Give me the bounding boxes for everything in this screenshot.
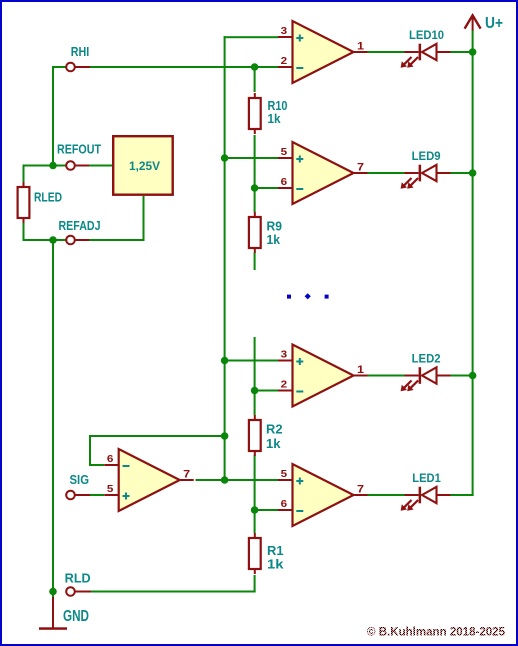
- wire junction: [251, 184, 259, 192]
- svg-text:R1: R1: [267, 544, 284, 558]
- wire junction: [251, 387, 259, 395]
- node REFOUT (terminal): [57, 143, 101, 170]
- wire junction: [49, 236, 57, 244]
- svg-text:© B.Kuhlmann 2018-2025: © B.Kuhlmann 2018-2025: [367, 625, 505, 639]
- op-amp comparator U1 (drives LED10): [278, 21, 368, 83]
- wire divider chain above R2: [254, 337, 256, 415]
- wire junction: [469, 169, 477, 177]
- svg-text:R2: R2: [266, 423, 283, 437]
- wire feedback to U5 pin6: [89, 464, 104, 466]
- wire junction: [251, 506, 259, 514]
- wire divider tap to U2 pin6: [255, 187, 278, 189]
- wire junction: [49, 588, 57, 596]
- svg-text:2: 2: [281, 379, 288, 391]
- svg-text:LED10: LED10: [409, 28, 444, 42]
- wire divider chain R2-R1: [254, 455, 256, 533]
- svg-text:LED2: LED2: [412, 351, 441, 365]
- svg-text:SIG: SIG: [70, 473, 90, 487]
- wire RLD line to divider bottom: [75, 591, 256, 593]
- wire divider chain below R9: [254, 253, 256, 271]
- resistor R10: [249, 93, 288, 134]
- svg-text:1,25V: 1,25V: [129, 159, 160, 173]
- wire U3 output to LED: [368, 375, 405, 377]
- svg-text:5: 5: [281, 468, 288, 480]
- wire LED anode to U+ rail: [451, 51, 474, 53]
- wire left rail RHI to REFOUT: [52, 66, 54, 167]
- svg-text:1k: 1k: [267, 233, 281, 247]
- wire LED anode to U+ rail: [451, 494, 474, 496]
- wire junction: [469, 48, 477, 56]
- wire divider tap to U3 pin2: [255, 390, 278, 392]
- svg-text:LED1: LED1: [412, 471, 441, 485]
- LED LED9: [401, 149, 451, 189]
- svg-text:1: 1: [357, 41, 364, 53]
- svg-text:REFOUT: REFOUT: [57, 143, 101, 157]
- LED LED2: [401, 351, 451, 391]
- svg-text:GND: GND: [63, 608, 89, 625]
- node RHI (terminal): [66, 45, 89, 71]
- LED LED1: [401, 471, 451, 511]
- power symbol U+: [465, 15, 503, 32]
- svg-text:5: 5: [107, 483, 114, 495]
- wire buffer feedback vertical: [89, 435, 91, 465]
- wire junction: [221, 476, 229, 484]
- voltage reference 1,25V: [113, 136, 173, 195]
- svg-text:U+: U+: [485, 15, 503, 32]
- svg-text:1k: 1k: [267, 558, 284, 572]
- wire buffer output to U4 pin5: [196, 479, 279, 481]
- wire bus to U3 pin3: [225, 360, 278, 362]
- ground symbol GND: [39, 597, 89, 630]
- wire U+ supply rail: [472, 30, 474, 496]
- wire junction: [469, 372, 477, 380]
- wire junction: [221, 432, 229, 440]
- svg-text:5: 5: [281, 146, 288, 158]
- wire RHI to left rail: [52, 66, 66, 68]
- resistor R2: [249, 415, 283, 456]
- svg-text:3: 3: [281, 25, 288, 37]
- op-amp comparator U3 (drives LED2): [278, 345, 368, 407]
- wire RLD junction to ground: [52, 592, 54, 598]
- resistor R9: [249, 212, 282, 253]
- svg-text:R10: R10: [268, 99, 288, 113]
- wire buffered signal bus: [224, 36, 226, 481]
- svg-text:1: 1: [357, 364, 364, 376]
- svg-text:1k: 1k: [268, 112, 281, 126]
- wire REFOUT to reference input: [75, 165, 112, 167]
- wire junction: [221, 357, 229, 365]
- svg-text:7: 7: [357, 484, 364, 496]
- svg-text:R9: R9: [267, 220, 283, 234]
- wire REFADJ line: [75, 239, 145, 241]
- svg-text:7: 7: [357, 162, 364, 174]
- wire U4 output to LED: [368, 494, 405, 496]
- wire divider chain R10-R9: [254, 135, 256, 212]
- wire terminal pin stub: [75, 165, 90, 167]
- wire U2 output to LED: [368, 172, 405, 174]
- svg-text:6: 6: [107, 453, 114, 465]
- svg-text:REFADJ: REFADJ: [59, 219, 101, 233]
- wire RLED bottom to REFADJ line: [23, 239, 67, 241]
- svg-text:6: 6: [281, 176, 288, 188]
- wire RHI line to divider top and U1 pin2: [75, 66, 278, 68]
- op-amp U5 SIG input buffer: [104, 449, 194, 511]
- wire bus to U2 pin5: [225, 157, 278, 159]
- continuation dots (chain continues): [287, 293, 329, 299]
- wire U1 output to LED: [368, 51, 405, 53]
- wire LED anode to U+ rail: [451, 375, 474, 377]
- wire junction: [251, 63, 259, 71]
- LED LED10: [401, 28, 451, 68]
- svg-text:RHI: RHI: [71, 45, 90, 59]
- node SIG (terminal): [66, 473, 89, 499]
- svg-text:7: 7: [183, 469, 190, 481]
- svg-text:6: 6: [281, 498, 288, 510]
- wire left rail REFADJ to RLD: [52, 239, 54, 592]
- node REFADJ (terminal): [59, 219, 101, 244]
- wire divider chain top segment: [254, 67, 256, 92]
- svg-text:RLD: RLD: [65, 572, 91, 586]
- svg-text:1k: 1k: [266, 437, 281, 451]
- wire buffer feedback top: [89, 435, 225, 437]
- wire divider chain below R1: [254, 575, 256, 593]
- wire divider tap to U4 pin6: [255, 509, 278, 511]
- svg-text:RLED: RLED: [34, 191, 62, 205]
- svg-text:3: 3: [281, 349, 288, 361]
- svg-text:LED9: LED9: [412, 149, 441, 163]
- node RLD (terminal): [65, 572, 91, 596]
- wire junction: [221, 154, 229, 162]
- op-amp comparator U4 (drives LED1): [278, 464, 368, 526]
- wire terminal pin stub: [75, 239, 90, 241]
- resistor R1: [249, 533, 284, 574]
- wire terminal pin stub: [75, 591, 92, 593]
- wire down to RLED top: [23, 166, 25, 183]
- wire SIG node to U5 pin5: [75, 494, 104, 496]
- wire reference output down to REFADJ line: [143, 196, 145, 239]
- wire bus to U1 pin3: [224, 36, 278, 38]
- svg-text:2: 2: [281, 55, 288, 67]
- op-amp comparator U2 (drives LED9): [278, 142, 368, 204]
- wire junction: [49, 162, 57, 170]
- wire terminal pin stub: [75, 66, 91, 68]
- wire RLED bottom down: [23, 223, 25, 241]
- wire terminal pin stub: [75, 494, 91, 496]
- wire LED anode to U+ rail: [451, 172, 474, 174]
- resistor RLED: [18, 182, 62, 223]
- wire RLED top to REFOUT line: [23, 165, 67, 167]
